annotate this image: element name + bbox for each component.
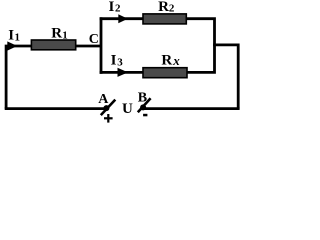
svg-text:U: U [122, 101, 133, 117]
terminal dot B [140, 104, 146, 110]
svg-text:I: I [111, 52, 117, 68]
wire: bottom right segment [145, 107, 240, 110]
svg-text:R: R [161, 53, 172, 69]
terminal dot A [103, 105, 109, 111]
plus sign [104, 117, 113, 119]
minus sign [143, 114, 147, 117]
svg-text:x: x [172, 53, 180, 68]
terminal slash B [138, 98, 151, 112]
svg-text:I: I [109, 0, 115, 15]
resistor Rx [143, 68, 187, 78]
svg-text:R: R [51, 26, 62, 42]
svg-text:B: B [138, 91, 147, 106]
svg-text:I: I [8, 28, 14, 44]
svg-text:C: C [89, 32, 99, 47]
terminal slash A [101, 100, 116, 116]
arrow I2 [118, 14, 128, 23]
wire: node C vertical [100, 17, 103, 74]
svg-text:1: 1 [15, 32, 21, 44]
svg-text:2: 2 [169, 3, 175, 15]
svg-text:A: A [98, 92, 109, 107]
svg-text:2: 2 [115, 3, 121, 15]
wire: mid connector + right vertical [213, 45, 238, 109]
svg-text:R: R [158, 0, 169, 15]
svg-text:3: 3 [117, 57, 123, 69]
wire: bottom left segment [5, 107, 106, 110]
wire: left vertical + I1 horizontal to node C [6, 46, 101, 109]
arrow I3 [118, 68, 129, 77]
svg-text:1: 1 [62, 30, 68, 42]
arrow I1 [7, 41, 17, 50]
resistor R2 [143, 14, 186, 24]
resistor R1 [31, 40, 75, 50]
wire: top branch, join vertical, Rx branch [100, 19, 215, 73]
